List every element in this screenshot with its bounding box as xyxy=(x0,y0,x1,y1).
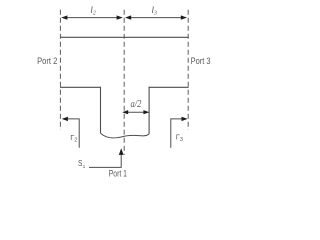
svg-text:a/2: a/2 xyxy=(131,98,142,110)
dimension l3 right arrowhead xyxy=(181,15,187,19)
port 3 reference plane (right dashed line) xyxy=(187,10,189,130)
bottom wall right segment xyxy=(149,86,189,88)
dimension l2 right arrowhead xyxy=(117,15,123,19)
gamma3 arrowhead xyxy=(182,117,188,121)
svg-text:Port 2: Port 2 xyxy=(37,56,57,66)
bottom wall left segment xyxy=(60,86,101,88)
dimension a/2 line xyxy=(126,111,147,113)
dimension l2 line xyxy=(66,17,118,19)
dimension l2 left arrowhead xyxy=(61,15,67,19)
gamma2 arrowhead xyxy=(62,117,68,121)
dimension a/2 right arrowhead xyxy=(143,110,149,114)
break (wavy) line at bottom of branch guide xyxy=(101,133,150,138)
svg-text:Port 1: Port 1 xyxy=(109,168,127,178)
svg-text:11: 11 xyxy=(83,164,86,169)
dimension l3 left arrowhead xyxy=(125,15,131,19)
top wall of main waveguide xyxy=(60,36,189,38)
branch guide right wall xyxy=(148,87,150,134)
svg-text:Port 3: Port 3 xyxy=(191,56,211,66)
junction centerline (center dashed line) xyxy=(123,10,125,155)
dimension a/2 left arrowhead xyxy=(122,110,128,114)
S11 leader line xyxy=(89,154,121,168)
gamma3 indicator line xyxy=(171,119,183,148)
S11 incident-wave arrowhead xyxy=(119,148,124,155)
branch guide left wall xyxy=(100,87,102,133)
centerline of port 2 reference plane (left dashed line) xyxy=(59,10,61,130)
dimension l3 line xyxy=(130,17,182,19)
gamma2 indicator line xyxy=(67,119,80,148)
